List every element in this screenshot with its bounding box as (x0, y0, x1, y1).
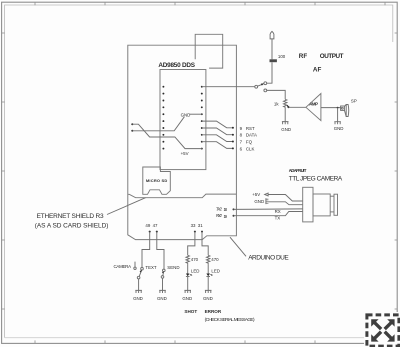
speaker SP1 (341, 98, 357, 116)
LED D1 (186, 268, 200, 276)
wire pin33 to R1 (188, 232, 195, 256)
resistor R2 470 (207, 255, 220, 264)
resistor R1 470 (186, 255, 199, 264)
pin 8 label DATA (240, 133, 257, 138)
wire DATA (202, 128, 234, 136)
ground pot (281, 122, 291, 132)
camera module (303, 187, 338, 222)
U1 right pin dots (201, 86, 203, 150)
amplifier U3 AMP (306, 94, 321, 121)
wire L1 to switch (267, 62, 272, 83)
wire pin47 to SW2 (157, 232, 164, 269)
wire GND to camera (268, 202, 302, 205)
svg-text:RX2: RX2 (216, 213, 223, 218)
wire R2 to LED2 (207, 265, 209, 274)
svg-text:DATA: DATA (246, 133, 257, 138)
svg-text:+5V: +5V (252, 192, 260, 197)
board outline U2 Arduino DUE with ethernet shield (128, 45, 237, 239)
wire pot to GND (284, 107, 286, 121)
svg-text:ARDUINO DUE: ARDUINO DUE (248, 254, 289, 261)
svg-text:470: 470 (211, 257, 219, 262)
svg-text:100: 100 (278, 54, 286, 59)
label CAMERA (114, 262, 137, 270)
inductor L1 100 (270, 54, 286, 62)
antenna ANT1 (270, 31, 274, 59)
switch SW1 (137, 267, 143, 279)
USB connector J1 (195, 34, 223, 68)
wire +5V to U1 (132, 124, 202, 148)
ground LED1 (182, 290, 192, 301)
ground LED2 (203, 290, 213, 301)
svg-text:AF: AF (313, 66, 322, 73)
svg-text:SEND: SEND (167, 265, 179, 270)
svg-text:OUTPUT: OUTPUT (320, 53, 344, 60)
ground SW1 (133, 290, 143, 301)
wire DDS output to switch (202, 86, 255, 88)
svg-text:CAMERA: CAMERA (114, 264, 132, 269)
wire +5V to camera (268, 195, 303, 202)
label arduino due (230, 237, 289, 261)
pin RX2 19 (216, 213, 235, 219)
svg-text:SHOT: SHOT (184, 309, 197, 314)
switch SW2 (161, 269, 165, 278)
node speaker gnd junction (337, 107, 339, 109)
ground SW2 (157, 290, 167, 301)
wire GND to U1 (132, 117, 184, 131)
svg-text:47: 47 (153, 223, 158, 228)
wire TX2 to camera RX (234, 208, 303, 211)
svg-text:(AS A SD CARD SHIELD): (AS A SD CARD SHIELD) (35, 222, 109, 229)
svg-text:TEXT: TEXT (145, 265, 157, 270)
potentiometer VR1 1k (274, 99, 290, 108)
svg-text:GND: GND (157, 296, 167, 301)
wire LED2 to GND (207, 277, 209, 291)
pin 7 label FQ (240, 140, 253, 145)
pin 9 label RST (240, 126, 255, 131)
svg-text:RST: RST (246, 126, 255, 131)
label adafruit camera (289, 168, 343, 182)
svg-text:GND: GND (203, 296, 213, 301)
svg-text:31: 31 (198, 223, 203, 228)
pushbutton actuator icon (134, 262, 136, 267)
svg-text:MICRO SD: MICRO SD (146, 178, 168, 183)
svg-text:ERROR: ERROR (205, 309, 222, 314)
svg-text:GND: GND (254, 199, 264, 204)
svg-text:GND: GND (133, 296, 143, 301)
U1 left pin dots (162, 86, 164, 150)
pin 33 (188, 223, 196, 255)
svg-text:TX2: TX2 (216, 206, 223, 211)
pin 6 label CLK (240, 146, 255, 151)
wire pot wiper to amp (289, 106, 306, 108)
wire CLK (202, 142, 234, 150)
expand icon overlay (364, 312, 400, 347)
pin 31 (198, 223, 208, 255)
wire amp to speaker (321, 107, 341, 109)
svg-text:AD9850 DDS: AD9850 DDS (158, 62, 195, 69)
svg-text:SP: SP (351, 98, 357, 103)
svg-text:19: 19 (224, 214, 228, 219)
svg-text:TTL JPEG CAMERA: TTL JPEG CAMERA (289, 175, 343, 182)
wire LED1 to GND (187, 277, 189, 291)
svg-text:CLK: CLK (246, 146, 255, 151)
pin 49 (142, 223, 151, 267)
node +5V of shield (131, 123, 202, 156)
wire SW1 to GND (138, 279, 140, 291)
svg-text:LED: LED (211, 268, 220, 273)
LED D2 (206, 268, 220, 276)
wire pin49 to SW1 (142, 232, 150, 268)
svg-text:1k: 1k (274, 101, 279, 106)
node GND of shield (131, 112, 202, 131)
power port +5V (252, 192, 303, 201)
label RF OUTPUT (299, 53, 344, 60)
svg-text:FQ: FQ (246, 140, 253, 145)
svg-text:RX: RX (275, 209, 281, 214)
svg-text:+5V: +5V (181, 151, 189, 156)
wire SW2 to GND (162, 278, 164, 290)
svg-text:TX: TX (275, 215, 281, 220)
wire switch to volume pot (267, 90, 286, 99)
op board U1 AD9850 DDS (158, 62, 206, 170)
wire R1 to LED1 (187, 265, 189, 274)
wire FQ (202, 135, 234, 143)
svg-text:AMP: AMP (309, 102, 318, 107)
svg-text:GND: GND (182, 296, 192, 301)
svg-text:GND: GND (334, 126, 344, 131)
svg-text:ADAFRUIT: ADAFRUIT (289, 168, 307, 173)
svg-text:(CHECK SERIAL MESSAGE): (CHECK SERIAL MESSAGE) (205, 317, 255, 323)
micro SD socket (143, 167, 171, 194)
svg-text:33: 33 (191, 223, 196, 228)
power port GND (254, 198, 302, 204)
wire RX2 to camera TX (234, 212, 303, 216)
pin 47 (153, 223, 164, 269)
svg-text:GND: GND (181, 112, 191, 117)
label ethernet shield (35, 198, 146, 230)
wire junction to GND (337, 108, 339, 122)
pin TX2 18 (216, 206, 235, 212)
wire RST (202, 121, 234, 129)
svg-text:RF: RF (299, 53, 308, 60)
ground speaker (334, 122, 344, 132)
svg-text:LED: LED (191, 268, 200, 273)
svg-text:49: 49 (145, 223, 150, 228)
switch SW3 RF/AF selector (255, 82, 267, 92)
svg-text:470: 470 (191, 257, 199, 262)
svg-text:GND: GND (281, 127, 291, 132)
svg-text:18: 18 (224, 207, 228, 212)
wire pin31 to R2 (202, 232, 208, 256)
svg-text:ETHERNET SHIELD R3: ETHERNET SHIELD R3 (37, 213, 104, 220)
